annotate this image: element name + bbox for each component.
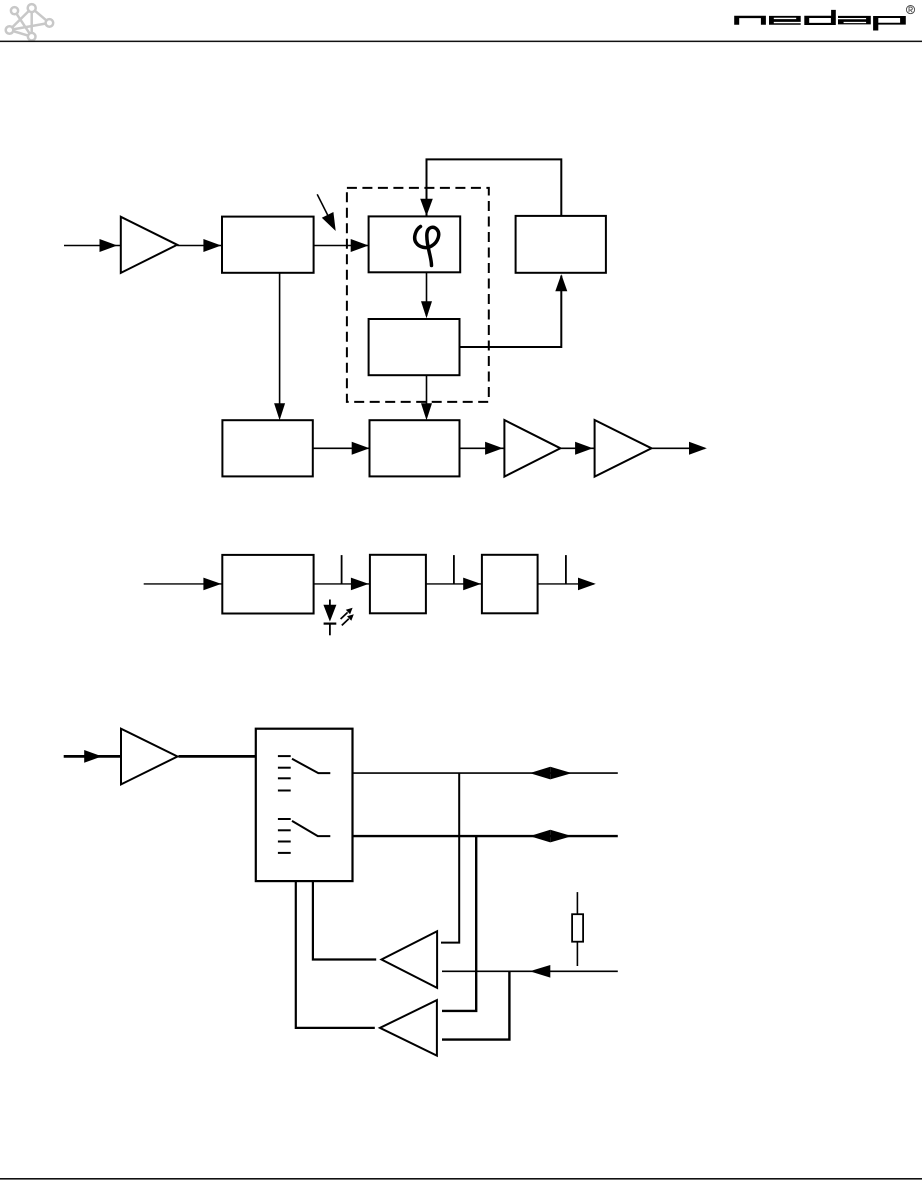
wire line1 (353, 772, 618, 774)
wire output (652, 447, 706, 449)
wire M2 to M3 (426, 583, 482, 585)
block B4 VCO (516, 216, 606, 273)
arrowhead into M2 (351, 578, 369, 591)
receiver R1 (382, 931, 438, 988)
block B5 (222, 420, 312, 476)
wire rx corner to R2 (442, 971, 509, 1039)
header rule (0, 41, 922, 43)
block B3 loop filter (369, 319, 460, 375)
wire input (64, 245, 120, 247)
arrowhead into B4 bottom (555, 274, 567, 291)
dashed enclosure (347, 188, 489, 402)
wire B6 to A2 (460, 447, 505, 449)
wire line2 drop to R2 input (442, 836, 476, 1011)
arrowhead into M3 (463, 578, 481, 591)
nedap network logo (gray, top-left) (6, 4, 54, 40)
arrowhead output (689, 442, 707, 455)
feedback wire top (427, 159, 562, 215)
wire B1 down to B5 (279, 273, 281, 417)
wire input 2 (144, 583, 223, 585)
annotation arrow (317, 194, 336, 231)
arrowhead into M1 (203, 578, 221, 591)
amplifier A2 (504, 420, 560, 477)
wire line2 (353, 835, 618, 837)
arrowhead input (100, 239, 118, 252)
switch contacts lower (278, 819, 330, 853)
node tick t1 (341, 555, 343, 584)
resistor RT (572, 892, 583, 966)
block M3 (482, 555, 538, 614)
arrowhead into B2 (351, 239, 369, 252)
block M2 (370, 555, 426, 614)
amplifier A4 (121, 729, 178, 785)
nedap logotype (top-right) (734, 10, 906, 31)
arrowhead into B6 (421, 403, 432, 420)
arrowhead rx (530, 965, 551, 978)
wire A4 to switch box (179, 755, 256, 758)
switch contacts upper (278, 756, 330, 790)
wire B1 to B2 (314, 245, 369, 247)
wire B3 to B4 (460, 276, 562, 347)
wire input 3 (64, 755, 121, 758)
wire B3 down to B6 (426, 375, 428, 417)
footer rule (0, 1178, 922, 1180)
wire A1 to B1 (177, 245, 222, 247)
wire M1 to M2 (314, 583, 370, 585)
block M1 (222, 555, 313, 614)
arrowhead into A3 (575, 442, 593, 455)
block B6 (370, 420, 460, 476)
arrowhead into B1 (203, 239, 221, 252)
wire A2 to A3 (560, 447, 594, 449)
arrowhead into B6 left (352, 442, 370, 455)
node tick t3 (565, 555, 567, 584)
arrowhead into B2 top (420, 199, 433, 216)
block B1 (222, 217, 314, 273)
bidirectional arrow line1 (530, 767, 572, 780)
arrowhead into B5 (274, 403, 285, 420)
bidirectional arrow line2 (530, 830, 572, 843)
receiver R2 (380, 1000, 437, 1056)
block B2 phase detector (369, 216, 461, 272)
switch box S1 (256, 729, 353, 881)
arrowhead output 2 (578, 578, 596, 591)
arrowhead input 3 (84, 750, 102, 763)
wire line1 drop to R1 input (441, 773, 459, 943)
arrowhead into A2 (485, 442, 503, 455)
wire B5 to B6 (313, 447, 370, 449)
wire S1 to R2 output (296, 881, 375, 1028)
arrowhead into B3 (421, 301, 432, 318)
wire rx (442, 970, 618, 972)
node tick t2 (453, 555, 455, 584)
wire B2 to B3 (426, 272, 428, 316)
amplifier A1 (121, 217, 177, 273)
phi symbol (415, 227, 439, 266)
registered trademark symbol (906, 6, 914, 14)
amplifier A3 (595, 420, 652, 477)
wire output 2 (538, 583, 594, 585)
wire S1 to R1 output (313, 881, 376, 959)
LED D1 (323, 600, 353, 636)
